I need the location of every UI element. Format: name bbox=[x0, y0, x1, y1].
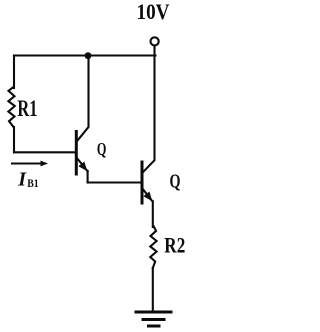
svg-text:10V: 10V bbox=[137, 0, 170, 24]
wire: base lead of Q1 bbox=[14, 151, 75, 153]
svg-text:Q: Q bbox=[170, 170, 181, 192]
arrowhead Q1 emitter bbox=[78, 162, 87, 172]
wire: left branch upper (top rail to R1) bbox=[13, 56, 15, 89]
svg-text:B1: B1 bbox=[27, 176, 39, 190]
transistor Q1 base bar bbox=[75, 132, 78, 175]
wire: R2 bottom to ground bbox=[152, 268, 154, 311]
wire: IB1 arrow shaft bbox=[12, 163, 42, 165]
resistor R1 bbox=[8, 87, 14, 127]
arrowhead IB1 bbox=[41, 161, 49, 167]
ground bbox=[136, 311, 171, 314]
transistor Q1 emitter lead bbox=[77, 159, 87, 172]
wire: Q2 emitter down to R2 bbox=[152, 201, 154, 227]
arrowhead Q2 emitter bbox=[143, 192, 152, 202]
svg-text:R2: R2 bbox=[164, 233, 185, 258]
wire: Q1 emitter to Q2 base bbox=[88, 181, 141, 183]
transistor Q2 emitter lead bbox=[143, 189, 153, 201]
supply terminal bbox=[151, 37, 159, 45]
wire: right rail (supply to Q2 collector) bbox=[143, 46, 155, 173]
svg-text:I: I bbox=[17, 168, 27, 190]
transistor Q2 base bar bbox=[141, 162, 144, 203]
svg-text:R1: R1 bbox=[17, 96, 37, 121]
svg-text:Q: Q bbox=[97, 139, 107, 159]
wire: top rail from R1 to supply bbox=[14, 54, 156, 56]
resistor R2 bbox=[150, 227, 156, 268]
wire: collector branch of Q1 (junction to transistor) bbox=[77, 56, 88, 141]
wire: R1 bottom to Q1 base node bbox=[13, 127, 15, 152]
wire: Q1 emitter down to Q2 base wire bbox=[87, 171, 89, 183]
node: junction dot at top rail bbox=[85, 52, 92, 59]
